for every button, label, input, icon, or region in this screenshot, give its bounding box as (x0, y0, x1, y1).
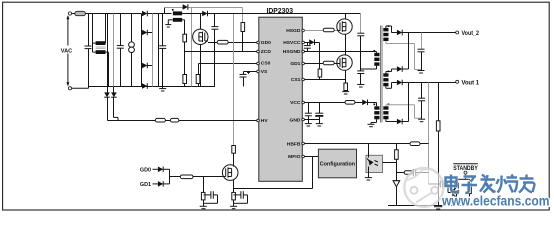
compensation RC (397, 169, 429, 176)
svg-text:ZCD: ZCD (261, 49, 272, 55)
VCC diode D9 (362, 100, 376, 107)
standby label (453, 164, 478, 174)
pin CS0 (257, 61, 271, 67)
svg-text:CS1: CS1 (291, 77, 301, 83)
sec3 bottom wire (386, 119, 397, 121)
gate resistor R9 (323, 61, 334, 65)
source resistor R20 (232, 192, 236, 206)
wire rail after inductor (182, 13, 202, 15)
source cap C15 (234, 191, 248, 203)
pin VCC (290, 100, 304, 106)
wire vertical L line (107, 14, 109, 87)
pin ZCD (257, 49, 272, 55)
resistor R1 ZCD (241, 23, 245, 52)
diode D7 aux (183, 4, 188, 10)
gate RC node (203, 177, 205, 193)
sense resistor R5 (196, 64, 200, 87)
TL431 U3 (393, 181, 400, 206)
pullup resistor R14 (395, 144, 399, 181)
IC U1 IDP2303 body (259, 17, 303, 181)
HB bulk gray wire (233, 14, 235, 146)
HV line diode D5 (104, 87, 110, 121)
boost diode D16 (202, 11, 207, 17)
sec1 bottom return gray (386, 41, 422, 70)
pin HSGD (286, 28, 304, 34)
watermark logo circle (404, 168, 443, 207)
HBFB row wire (304, 143, 428, 145)
char fa (480, 175, 496, 193)
GD join wire (170, 169, 181, 184)
resistor R18 (180, 175, 222, 179)
svg-text:Configuration: Configuration (320, 162, 355, 168)
svg-text:Vout 1: Vout 1 (462, 79, 480, 86)
bleeder mosfet Q4 (222, 165, 238, 193)
coupling cap C16 (429, 181, 449, 188)
HV row wire (108, 120, 156, 122)
transistor Q5 (448, 184, 457, 198)
sense resistor R4 (183, 52, 187, 87)
configuration box (318, 149, 356, 178)
ground input bus (159, 87, 166, 92)
svg-text:GD0: GD0 (140, 167, 151, 173)
ZCD row wire (185, 51, 258, 53)
sec1 top wire (386, 26, 397, 33)
bridge diode D4 (142, 83, 153, 89)
bottom bus wire (89, 86, 216, 88)
standby join wire (457, 199, 470, 206)
pin VS (257, 69, 268, 75)
ground opto (365, 178, 372, 180)
char dian (446, 175, 459, 193)
svg-text:CS0: CS0 (261, 61, 271, 67)
svg-text:VAC: VAC (61, 48, 72, 54)
svg-text:VS: VS (261, 69, 268, 75)
sense resistor R10 (344, 83, 348, 92)
AC input terminal bottom (68, 87, 88, 90)
resistor R2 (183, 34, 187, 51)
resistor R16 HV (155, 118, 165, 122)
feedback gray wire Vout1 (428, 83, 430, 185)
terminal Vout 1 (456, 79, 480, 86)
sec2 top wire (386, 69, 397, 73)
CS1 row wire (304, 79, 345, 81)
PFC inductor L2 (172, 9, 182, 22)
Vout 1 capacitor C12 (418, 83, 425, 119)
GD1 branch (140, 181, 170, 188)
VCC cap C10 (315, 103, 323, 127)
transformer T1 core (380, 26, 382, 123)
VCC cap C9 (305, 103, 312, 127)
output diode D10 (397, 30, 402, 36)
X capacitor C1 (85, 14, 92, 87)
Vout_2 capacitor C11 (418, 33, 425, 70)
svg-text:www.elecfans.com: www.elecfans.com (441, 193, 549, 209)
pin HSGND (283, 49, 305, 55)
LS mosfet Q3 (337, 52, 352, 84)
sec2 bottom wire (386, 83, 397, 89)
MFIO wire (234, 157, 319, 189)
HS mosfet Q2 (337, 14, 352, 52)
capacitor C2 (117, 14, 124, 87)
wire (165, 120, 170, 122)
VCC row wire (304, 102, 362, 104)
pin GD1 (290, 61, 304, 67)
resistor R21 (455, 179, 459, 199)
VS row wire (244, 71, 258, 73)
resistor R8 (318, 69, 322, 80)
VAC label (60, 46, 74, 55)
output diode D11 (397, 66, 409, 72)
pin HSVCC (283, 40, 304, 46)
ground aux (368, 124, 375, 126)
bridge diode D3 (142, 63, 153, 69)
terminal Vout_2 (456, 30, 480, 37)
svg-text:Vout_2: Vout_2 (462, 30, 480, 37)
PFC mosfet Q1 (193, 14, 208, 87)
svg-text:HSGD: HSGD (286, 28, 301, 34)
optocoupler U2 (366, 144, 383, 178)
pin HV (257, 118, 269, 124)
AC input terminal top (68, 12, 71, 15)
watermark chinese text (446, 175, 535, 193)
PFC output capacitor C5 (211, 14, 218, 87)
resistor R17 HV (170, 118, 178, 122)
char you (519, 175, 534, 193)
output diode D13 (397, 119, 409, 125)
bootstrap cap C8 (304, 43, 311, 52)
gate resistor R3 (208, 40, 257, 44)
svg-text:GND: GND (290, 117, 301, 123)
svg-text:VCC: VCC (290, 100, 301, 106)
svg-text:MFIO: MFIO (288, 154, 300, 160)
sec3 top return gray (386, 105, 422, 118)
ground Vout_2 (418, 70, 425, 74)
pin GD0 (257, 40, 271, 46)
aux winding (371, 104, 380, 125)
ground gate RC (200, 206, 207, 208)
wire to HV pin (179, 120, 257, 122)
resistor R6 (232, 146, 236, 166)
fuse F1 (72, 11, 142, 15)
GD0 branch (140, 167, 170, 174)
ground bottom (434, 206, 442, 210)
resistor R19 (201, 192, 205, 206)
Vout 1 rail (402, 82, 456, 84)
D12 D13 join wire (408, 83, 410, 122)
svg-text:HBFB: HBFB (287, 142, 301, 148)
char zi (462, 177, 478, 193)
VS capacitor C4 (240, 71, 251, 87)
VAC source (66, 15, 69, 86)
ground source RC (230, 206, 237, 208)
HB divider cap C6 (357, 14, 364, 71)
Vout_2 rail (402, 32, 456, 34)
GD1 row wire (304, 63, 337, 65)
wire vertical N line gray (113, 14, 115, 87)
bottom bus wire (388, 205, 466, 207)
pin CS1 (291, 77, 305, 83)
pin HBFB (287, 142, 305, 148)
gate resistor R7 (323, 28, 334, 32)
ground HB (357, 85, 364, 88)
CS0 row wire (199, 63, 258, 65)
ZCD aux loop wire gray (165, 8, 243, 23)
svg-text:HSVCC: HSVCC (283, 40, 301, 46)
bridge cathode wire 2 (158, 14, 160, 87)
svg-text:HV: HV (261, 118, 269, 124)
top rail over IC (202, 13, 360, 15)
HV line diode D6 (111, 87, 118, 121)
secondary winding S1 (383, 25, 389, 41)
opto output wire (383, 162, 397, 164)
common mode choke L1 (93, 14, 109, 87)
output diode D12 (397, 80, 402, 86)
HSGND row wire (304, 51, 376, 53)
pin MFIO (288, 154, 304, 160)
D10 D11 join wire (408, 33, 410, 70)
HB divider cap C7 (357, 71, 364, 85)
GND row wire (304, 119, 319, 121)
svg-text:GD1: GD1 (140, 182, 151, 188)
varistor RV1 (129, 14, 135, 87)
svg-text:GD0: GD0 (261, 40, 271, 46)
bridge diode D2 (142, 30, 153, 36)
svg-text:GD1: GD1 (290, 61, 300, 67)
bridge rectifier anode rail (141, 14, 143, 87)
bridge diode D1 (142, 11, 172, 17)
resistor R11 (345, 101, 355, 105)
aux winding right wire (182, 20, 184, 34)
secondary winding S2 (383, 71, 389, 87)
gate cap C14 (204, 191, 218, 203)
bootstrap diode D8 (304, 39, 319, 69)
bridge cathode wire gray (152, 14, 154, 87)
resistor R22 (468, 179, 472, 199)
pin GND (290, 117, 305, 123)
ground Vout 1 (418, 118, 425, 122)
aux gray drop wire (191, 8, 193, 87)
aux winding left ground (165, 20, 173, 27)
divider resistor R12 (436, 83, 440, 206)
bulk capacitor C3 (159, 14, 166, 87)
ground LS source (342, 92, 349, 94)
standby wire (457, 174, 470, 179)
primary winding (361, 50, 380, 69)
resistor R13 (410, 142, 420, 146)
secondary winding S3 (383, 104, 389, 120)
svg-text:HSGND: HSGND (283, 49, 301, 55)
HSGD gray wire (304, 30, 337, 32)
char shao (497, 175, 518, 193)
